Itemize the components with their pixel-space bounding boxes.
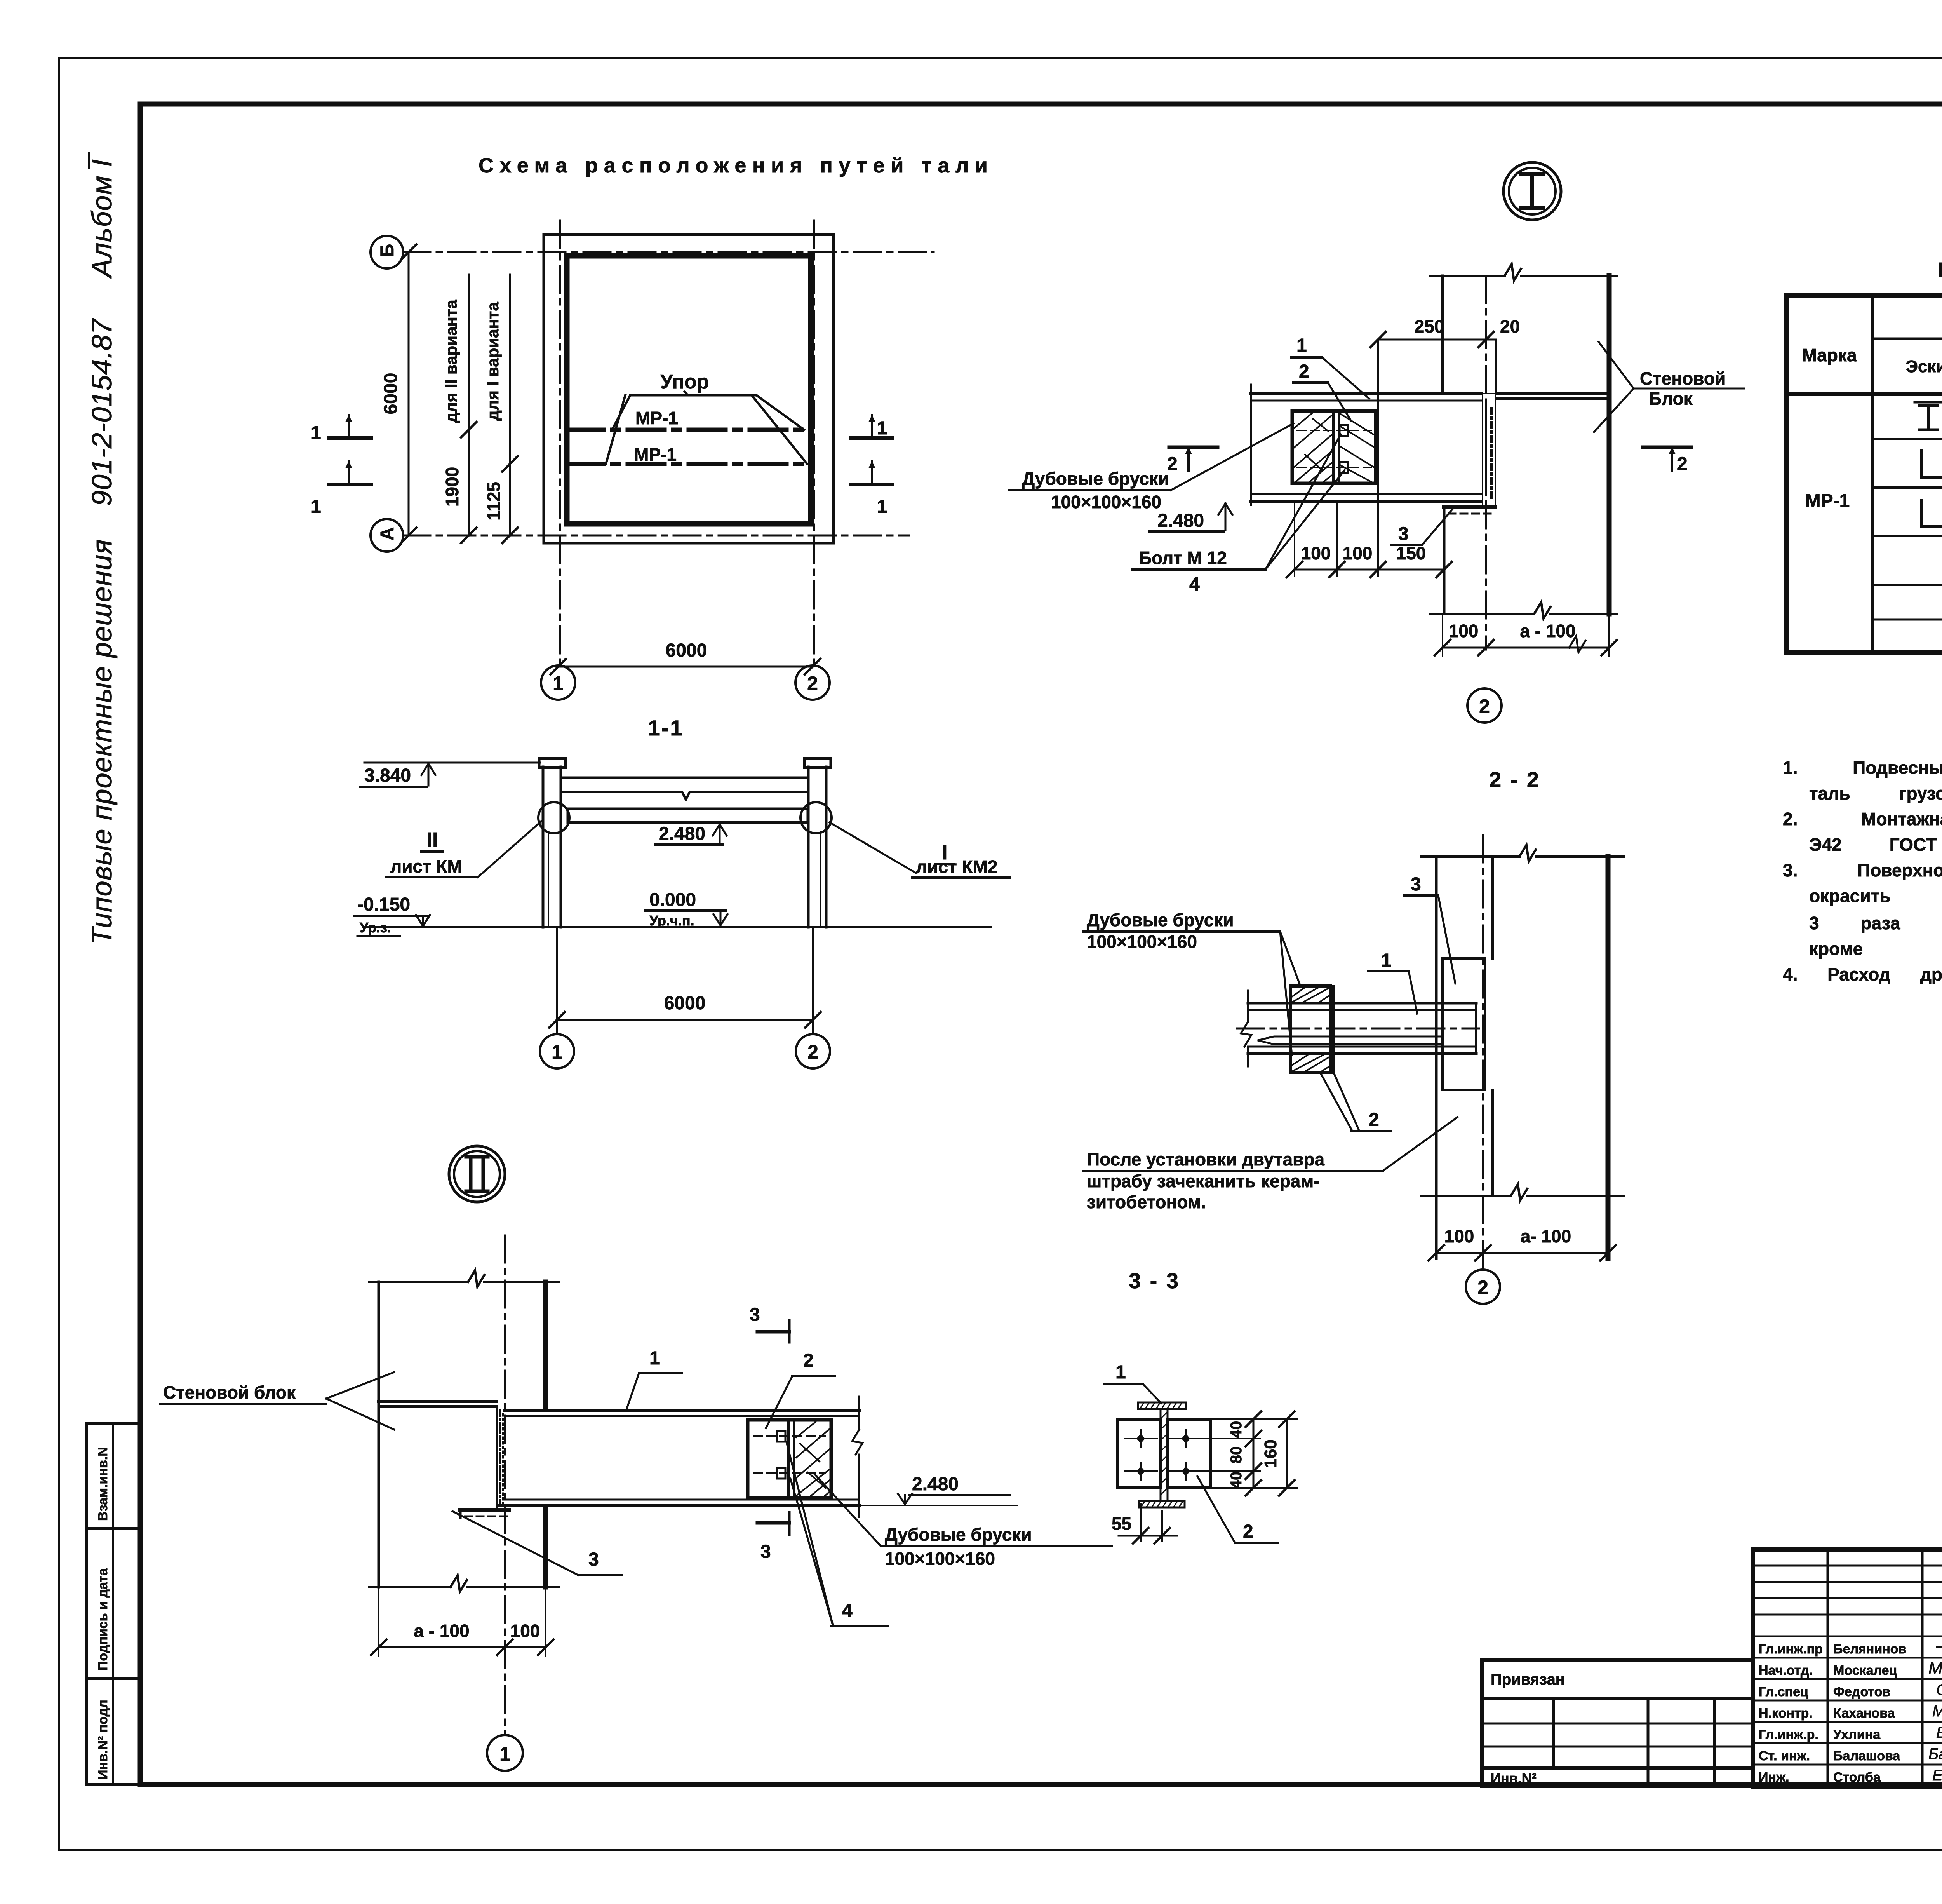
I-beam web <box>1161 1409 1168 1501</box>
svg-text:Ур.ч.п.: Ур.ч.п. <box>649 913 694 928</box>
svg-text:100×100×160: 100×100×160 <box>1051 492 1161 512</box>
svg-text:Ухлина: Ухлина <box>1833 1727 1881 1742</box>
grid circle А <box>371 519 403 552</box>
leader to node II circle <box>478 820 542 877</box>
bolt cross left top <box>1124 1430 1157 1448</box>
dim 20 <box>1486 339 1496 341</box>
svg-text:После установки двутавра: После установки двутавра <box>1087 1149 1324 1169</box>
plan bottom dim line 6000 <box>558 666 813 668</box>
svg-text:Белянинов: Белянинов <box>1833 1642 1906 1657</box>
beam left break <box>1241 991 1251 1066</box>
lower wall left edge <box>1443 515 1446 614</box>
svg-text:таль грузоподъемностью Q=1тс: таль грузоподъемностью Q=1тс ГОСТ 1106-7… <box>1809 783 1942 803</box>
grid circle Б <box>371 236 403 268</box>
table outer rect <box>1787 295 1942 653</box>
bolt cross left bottom <box>1124 1462 1157 1480</box>
wall left edge <box>1435 857 1438 1259</box>
right column cap <box>804 758 831 768</box>
svg-text:для II варианта: для II варианта <box>442 300 460 423</box>
svg-text:6000: 6000 <box>664 993 706 1014</box>
svg-text:2: 2 <box>1677 454 1688 474</box>
circle 1 <box>540 1034 574 1068</box>
wall bottom break line node II <box>369 1575 559 1592</box>
svg-text:4. Расход древесины - 0,01 м: 4. Расход древесины - 0,01 м³ <box>1783 964 1942 984</box>
svg-text:Марка: Марка <box>1802 345 1857 365</box>
right plate <box>1168 1419 1210 1488</box>
dim 250 <box>1378 339 1486 341</box>
slot left edge stipple strip <box>496 1406 498 1510</box>
svg-text:100: 100 <box>1449 621 1479 641</box>
level mark 3.840 line <box>364 762 540 764</box>
dim 55 <box>1140 1503 1142 1542</box>
svg-text:1: 1 <box>1115 1362 1126 1383</box>
ground line <box>364 926 991 928</box>
section mark 1-1 right lower <box>851 483 892 486</box>
privyazan row lines <box>1482 1723 1753 1725</box>
svg-text:1: 1 <box>649 1348 660 1369</box>
wall axis dash-dot <box>1482 835 1484 1270</box>
circle 2 <box>796 1034 830 1068</box>
svg-text:100: 100 <box>1444 1226 1474 1246</box>
svg-text:окрасить эмалью ПФ-115 ГОСТ: окрасить эмалью ПФ-115 ГОСТ 6465-76*· за <box>1809 886 1942 906</box>
left stamp column divider vertical <box>112 1424 114 1784</box>
wall right edge lower thick <box>543 1507 548 1587</box>
svg-text:Ур.з.: Ур.з. <box>360 920 391 935</box>
sketch I-beam row1 <box>1915 402 1942 430</box>
svg-text:20: 20 <box>1500 316 1520 336</box>
wall inner line upper <box>1491 857 1494 958</box>
svg-text:Дубовые бруски: Дубовые бруски <box>885 1524 1032 1545</box>
privyazan verticals <box>1552 1699 1555 1768</box>
left column <box>542 767 545 927</box>
angle poz3 in slot <box>460 1508 509 1512</box>
node II detail bubble <box>449 1146 505 1202</box>
svg-text:1-1: 1-1 <box>648 716 684 740</box>
table column Марка divider <box>1871 295 1874 653</box>
upor right slope to rail 2 <box>752 395 807 464</box>
beam top flange lines <box>1251 392 1482 395</box>
beam top flange <box>1248 1002 1476 1005</box>
svg-text:2: 2 <box>803 1350 814 1371</box>
svg-text:250: 250 <box>1415 316 1444 336</box>
wood hatch node II <box>796 1422 830 1496</box>
wood hatch <box>1294 413 1373 482</box>
node I detail bubble <box>1503 162 1561 220</box>
wall top break line <box>1430 264 1617 280</box>
svg-text:4: 4 <box>1189 574 1200 595</box>
svg-text:Н.контр.: Н.контр. <box>1759 1706 1813 1721</box>
wall bottom break line <box>1430 602 1617 618</box>
svg-text:1: 1 <box>1296 335 1307 356</box>
svg-text:1: 1 <box>499 1743 510 1765</box>
I-beam top flange <box>1138 1402 1186 1409</box>
grid circle 1 <box>541 665 575 700</box>
axis line 1 vertical <box>559 221 561 665</box>
svg-text:0.000: 0.000 <box>649 890 696 910</box>
svg-text:Моксф: Моксф <box>1932 1703 1942 1720</box>
wall axis dash-dot <box>1485 276 1487 650</box>
svg-text:3.840: 3.840 <box>364 765 411 786</box>
svg-text:Болт М 12: Болт М 12 <box>1139 548 1227 568</box>
node II joint circle <box>538 802 569 833</box>
dim line 6000 <box>557 1019 813 1021</box>
svg-text:лист КМ: лист КМ <box>390 856 462 876</box>
extension line dim1900 <box>468 275 470 535</box>
wall inner line lower <box>1491 1090 1494 1196</box>
svg-text:Каханова: Каханова <box>1833 1706 1895 1721</box>
beam bottom edge plan <box>505 1499 859 1501</box>
svg-text:2.480: 2.480 <box>1157 510 1204 531</box>
wall bottom break line <box>1422 1184 1624 1200</box>
beam top edge plan <box>505 1409 859 1412</box>
svg-text:4: 4 <box>842 1601 853 1621</box>
svg-text:Э42 ГОСТ 9467-75 швами высот: Э42 ГОСТ 9467-75 швами высотой hш=6мм. <box>1809 834 1942 855</box>
grid circle 2 <box>795 665 830 700</box>
extension lines right <box>1212 1418 1297 1420</box>
svg-text:Мос—я̇: Мос—я̇ <box>1928 1658 1942 1678</box>
svg-text:Схема расположения путей тал: Схема расположения путей тали <box>479 154 990 177</box>
svg-text:Инв.N²: Инв.N² <box>1491 1770 1537 1786</box>
stamp vertical col2 <box>1921 1549 1924 1786</box>
svg-text:кроме ездовой поверхности м: кроме ездовой поверхности монорельсов. <box>1809 939 1942 959</box>
svg-text:2: 2 <box>1477 1277 1488 1298</box>
svg-text:II: II <box>426 828 438 852</box>
row line 5 <box>1872 619 1942 621</box>
svg-text:Инж.: Инж. <box>1759 1770 1789 1785</box>
wall axis dash-dot node II <box>504 1235 506 1735</box>
slot rectangle <box>1443 958 1485 1090</box>
svg-text:2.480: 2.480 <box>659 824 705 844</box>
svg-text:2. Монтажная сварка осуществ: 2. Монтажная сварка осуществляется элект… <box>1783 809 1942 829</box>
section mark 1-1 left upper <box>329 436 371 440</box>
svg-text:1. Подвесные пути тали расч: 1. Подвесные пути тали расчитаны на одну <box>1783 758 1942 778</box>
svg-text:Гл.спец: Гл.спец <box>1759 1685 1808 1699</box>
svg-text:Блок: Блок <box>1649 388 1693 409</box>
svg-text:Еруту: Еруту <box>1936 1724 1942 1741</box>
svg-text:1125: 1125 <box>484 482 504 521</box>
svg-text:2: 2 <box>1299 361 1309 382</box>
monorail МР-1 upper <box>567 428 811 432</box>
svg-text:Подпись и дата: Подпись и дата <box>96 1568 110 1671</box>
beam end edge <box>1475 1003 1477 1054</box>
beam left end edge <box>1250 385 1252 505</box>
svg-text:Банашз: Банашз <box>1928 1745 1942 1763</box>
angle poz3 under beam <box>1444 505 1495 509</box>
section mark 2 left <box>1169 446 1218 449</box>
svg-text:для I варианта: для I варианта <box>484 302 502 421</box>
svg-text:100: 100 <box>510 1621 540 1641</box>
privyazan table outer <box>1482 1660 1753 1786</box>
bed joint with stipple <box>379 1405 497 1408</box>
extension to circle 2 <box>812 927 814 1034</box>
svg-text:100: 100 <box>1343 543 1373 563</box>
svg-text:3: 3 <box>1411 874 1421 895</box>
svg-text:—Ту̅: —Ту̅ <box>1936 1637 1942 1655</box>
svg-text:Ведомость элементов: Ведомость элементов <box>1937 259 1942 281</box>
svg-text:Дубовые бруски: Дубовые бруски <box>1087 910 1234 930</box>
bed joint stipple right of slot <box>1496 392 1609 395</box>
dim 160 <box>1286 1419 1288 1488</box>
node I joint circle <box>800 802 832 833</box>
wood hatch lower <box>1292 1055 1330 1071</box>
dim 40 80 40 <box>1253 1419 1255 1488</box>
dim 100 a-100 node I <box>1442 614 1443 657</box>
wall right edge thick <box>1607 276 1612 614</box>
svg-text:2 - 2: 2 - 2 <box>1489 767 1540 792</box>
left stamp column box <box>87 1424 140 1784</box>
bolt 2 dashed <box>1297 467 1371 468</box>
svg-text:лист КМ2: лист КМ2 <box>916 857 997 877</box>
svg-text:Дубовые бруски: Дубовые бруски <box>1022 469 1169 489</box>
svg-text:штрабу зачеканить керам-: штрабу зачеканить керам- <box>1087 1171 1320 1191</box>
bolt 1 node II <box>753 1435 825 1437</box>
monorail beam side view <box>568 809 808 822</box>
section mark 1-1 left lower <box>329 483 371 486</box>
svg-text:зитобетоном.: зитобетоном. <box>1087 1192 1206 1212</box>
stamp thin rows left <box>1753 1565 1942 1567</box>
svg-text:2: 2 <box>807 1041 818 1063</box>
svg-text:3 - 3: 3 - 3 <box>1129 1268 1180 1293</box>
grout slot stipple strip <box>1483 394 1495 506</box>
beam bottom flange lines <box>1251 493 1482 495</box>
wall right edge upper thick <box>543 1282 548 1407</box>
wood hatch upper <box>1292 987 1330 1002</box>
svg-text:Столба: Столба <box>1833 1770 1881 1785</box>
svg-text:6000: 6000 <box>666 640 707 661</box>
header mid line <box>1872 338 1942 340</box>
svg-text:а- 100: а- 100 <box>1521 1226 1571 1246</box>
svg-text:1: 1 <box>311 423 321 443</box>
roof slab bottom line <box>561 792 808 800</box>
oak blocks section 2-2 <box>1290 986 1330 1073</box>
I-beam bottom flange <box>1139 1501 1185 1507</box>
bolt 2 node II <box>753 1472 825 1474</box>
svg-text:3. Поверхность стальных конс: 3. Поверхность стальных конструкций моно… <box>1783 860 1942 880</box>
leader to block node II <box>814 1473 881 1546</box>
svg-text:100×100×160: 100×100×160 <box>1087 932 1197 952</box>
upor right slope to rail 1 <box>756 395 804 430</box>
leader to oak block <box>1171 423 1293 490</box>
beam center dash-dot <box>1237 1028 1479 1030</box>
dim line 6000 vertical <box>408 252 410 535</box>
svg-text:А: А <box>377 527 398 541</box>
bolt cross right bottom <box>1170 1462 1203 1480</box>
monorail МР-1 lower <box>567 462 811 466</box>
upor left slope to rail 2 <box>606 395 625 464</box>
svg-text:6000: 6000 <box>381 373 401 415</box>
axis line 2 vertical <box>813 221 815 665</box>
svg-text:Привязан: Привязан <box>1491 1671 1565 1688</box>
svg-text:160: 160 <box>1261 1439 1280 1468</box>
svg-text:2.480: 2.480 <box>912 1474 959 1495</box>
oak blocks node II <box>748 1420 831 1498</box>
building wall inner rect <box>567 256 811 524</box>
svg-text:40: 40 <box>1228 1421 1245 1439</box>
sketch angle row2 <box>1922 451 1942 477</box>
building wall outer rect <box>544 235 834 543</box>
extension line dim1125 <box>509 275 511 535</box>
dim a-100 100 node II <box>378 1587 379 1656</box>
wall right edge thick <box>1606 857 1611 1259</box>
bolt shank <box>1258 1036 1442 1044</box>
svg-text:МР-1: МР-1 <box>635 408 678 428</box>
stamp vertical col1 <box>1827 1549 1829 1786</box>
beam right end break <box>852 1397 863 1517</box>
privyazan header bottom <box>1482 1697 1753 1700</box>
svg-text:150: 150 <box>1396 543 1426 563</box>
wall left edge node II <box>378 1282 380 1587</box>
right column <box>807 767 810 927</box>
extension to circle 1 <box>556 927 558 1034</box>
row line 1 <box>1872 438 1942 440</box>
svg-text:Нач.отд.: Нач.отд. <box>1759 1663 1813 1678</box>
axis line А horizontal <box>403 535 909 537</box>
svg-text:-0.150: -0.150 <box>357 894 410 915</box>
header bottom line <box>1787 392 1942 396</box>
svg-text:80: 80 <box>1228 1446 1245 1464</box>
svg-text:3: 3 <box>760 1542 771 1562</box>
oak blocks node I <box>1292 411 1376 483</box>
row line 4 <box>1872 584 1942 586</box>
svg-text:1: 1 <box>552 1041 562 1063</box>
svg-text:МР-1: МР-1 <box>634 444 677 465</box>
wall upper left edge <box>1441 276 1444 394</box>
svg-text:1: 1 <box>877 418 887 439</box>
svg-text:Стеновой блок: Стеновой блок <box>163 1382 296 1402</box>
svg-text:2: 2 <box>1243 1521 1253 1542</box>
svg-text:100×100×160: 100×100×160 <box>885 1549 995 1569</box>
svg-text:3: 3 <box>1398 524 1409 544</box>
svg-text:Типовые проектные решения: Типовые проектные решения 901-2-0154.87 … <box>87 152 118 945</box>
svg-text:2: 2 <box>1479 695 1490 717</box>
section mark 1-1 right upper <box>851 436 892 440</box>
wall top break line <box>1422 845 1624 861</box>
upor stop top line <box>630 394 756 397</box>
grid circle 2 sec22 <box>1466 1270 1500 1304</box>
svg-text:Эскиз: Эскиз <box>1906 357 1942 376</box>
svg-text:Федотов: Федотов <box>1833 1685 1890 1699</box>
svg-text:Инв.N² подл: Инв.N² подл <box>96 1700 110 1779</box>
svg-text:Балашова: Балашова <box>1833 1749 1900 1763</box>
svg-text:1: 1 <box>553 672 564 694</box>
svg-text:1: 1 <box>1381 950 1392 971</box>
svg-text:Гл.инж.р.: Гл.инж.р. <box>1759 1727 1818 1742</box>
svg-text:2: 2 <box>1369 1110 1379 1130</box>
row line 3 <box>1872 535 1942 537</box>
svg-text:Б: Б <box>377 244 398 258</box>
svg-text:3: 3 <box>588 1549 599 1570</box>
svg-text:Упор: Упор <box>660 371 709 393</box>
svg-text:3 раза по слою грунта из: 3 раза по слою грунта из лака ФЛ-03к, <box>1809 913 1942 933</box>
svg-text:МР-1: МР-1 <box>1805 491 1850 511</box>
svg-text:1: 1 <box>311 496 321 517</box>
svg-text:1: 1 <box>877 496 887 517</box>
beam bottom flange <box>1248 1046 1476 1048</box>
left stamp column divider 1 <box>87 1527 140 1530</box>
bolt 1 dashed <box>1297 430 1371 431</box>
svg-text:Взам.инв.N: Взам.инв.N <box>96 1447 110 1521</box>
svg-text:Москалец: Москалец <box>1833 1663 1897 1678</box>
dim 100 100 150 <box>1294 501 1295 576</box>
svg-text:40: 40 <box>1228 1472 1245 1489</box>
svg-text:а - 100: а - 100 <box>414 1621 469 1641</box>
upor left slope to rail 1 <box>612 395 630 430</box>
svg-text:100: 100 <box>1301 543 1331 563</box>
level 2.480 node II <box>859 1505 1018 1506</box>
svg-text:Ст. инж.: Ст. инж. <box>1759 1749 1810 1763</box>
grid circle 1 node II <box>487 1735 523 1771</box>
dim 100 a-100 sec22 <box>1436 1252 1608 1254</box>
left plate <box>1117 1419 1161 1488</box>
axis line Б horizontal <box>403 251 934 253</box>
leader to node I circle <box>830 822 916 873</box>
leaders to blocks <box>1280 932 1300 986</box>
stamp outer <box>1753 1549 1942 1786</box>
svg-text:Стеновой: Стеновой <box>1640 368 1726 388</box>
stamp name rows <box>1753 1636 1942 1637</box>
svg-text:2: 2 <box>807 672 818 694</box>
svg-text:Схумиј: Схумиј <box>1936 1681 1942 1698</box>
svg-text:Гл.инж.пр: Гл.инж.пр <box>1759 1642 1823 1657</box>
svg-text:3: 3 <box>750 1305 760 1325</box>
row line 2 <box>1872 486 1942 489</box>
section mark 2 right <box>1643 446 1691 449</box>
level mark 3.840 arrow <box>428 764 430 786</box>
section mark 3 bottom <box>757 1521 789 1525</box>
left stamp column divider 2 <box>87 1677 140 1680</box>
svg-text:Е.Стој.-: Е.Стој.- <box>1932 1767 1942 1784</box>
svg-text:1900: 1900 <box>442 467 462 507</box>
left column cap <box>539 758 566 768</box>
leaders to bolts <box>1265 434 1341 570</box>
roof slab top line <box>561 777 808 779</box>
bolt cross right top <box>1170 1430 1203 1448</box>
wall top break line node II <box>369 1270 559 1287</box>
svg-text:а - 100: а - 100 <box>1520 621 1575 641</box>
leader to wall <box>1383 1117 1457 1171</box>
svg-text:55: 55 <box>1112 1514 1131 1534</box>
sketch angle row3 <box>1922 500 1942 527</box>
grid circle 2 node I <box>1467 688 1502 723</box>
